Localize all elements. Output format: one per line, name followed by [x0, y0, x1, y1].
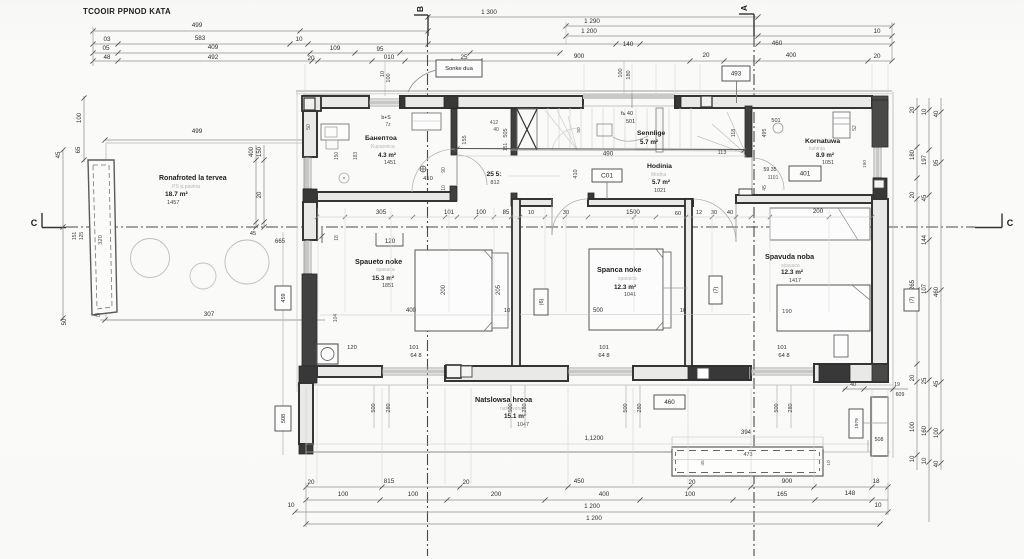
- svg-text:20: 20: [910, 106, 916, 113]
- svg-text:60: 60: [675, 211, 681, 217]
- boxed label 1979: [849, 409, 863, 438]
- top guide x566: [565, 22, 567, 44]
- label 25 5: [487, 171, 560, 186]
- left wall lower extension: [299, 383, 313, 444]
- downpipe rect 508: [871, 397, 888, 456]
- room label lower terrace: [475, 395, 533, 428]
- svg-text:609: 609: [896, 392, 905, 398]
- stair winder lines: [697, 112, 746, 154]
- svg-text:508: 508: [875, 437, 884, 443]
- svg-text:165: 165: [777, 491, 788, 498]
- bottom wall window 1: [382, 367, 445, 376]
- room label sennlige: [637, 130, 666, 146]
- rotated labels near centerline left: [72, 232, 85, 241]
- svg-text:109: 109: [330, 45, 341, 52]
- svg-text:65: 65: [76, 146, 82, 153]
- top wall block a: [400, 96, 405, 108]
- top wall segment 2: [400, 96, 583, 108]
- wc2 fixture b: [613, 136, 648, 141]
- svg-text:499: 499: [192, 128, 203, 135]
- C01 leader: [606, 182, 608, 199]
- svg-text:20: 20: [462, 479, 470, 486]
- svg-text:118: 118: [731, 129, 737, 137]
- dim row y212: [376, 208, 824, 217]
- guide line x385 with rotated 10/100: [380, 61, 392, 96]
- svg-text:40: 40: [727, 210, 733, 216]
- svg-text:1 200: 1 200: [584, 503, 600, 510]
- svg-text:409: 409: [208, 44, 219, 51]
- tree circle 1: [131, 239, 170, 278]
- svg-text:12: 12: [696, 210, 702, 216]
- svg-text:1021: 1021: [654, 188, 666, 194]
- svg-text:665: 665: [275, 239, 286, 245]
- svg-text:280: 280: [637, 403, 643, 412]
- bed 2: [589, 249, 687, 330]
- svg-text:450: 450: [574, 478, 585, 485]
- svg-text:460: 460: [772, 40, 783, 47]
- svg-text:20: 20: [702, 52, 710, 59]
- svg-text:05: 05: [102, 45, 110, 52]
- svg-text:(6): (6): [539, 298, 545, 305]
- svg-text:200: 200: [491, 491, 502, 498]
- right dim x929: [922, 98, 932, 522]
- svg-text:150: 150: [334, 152, 340, 161]
- svg-text:45: 45: [56, 151, 62, 158]
- svg-text:40: 40: [850, 382, 856, 388]
- svg-text:85: 85: [503, 210, 510, 216]
- door symbol 410: [420, 166, 433, 182]
- svg-text:183: 183: [353, 152, 359, 161]
- svg-text:499: 499: [192, 22, 203, 29]
- svg-text:1417: 1417: [789, 278, 801, 284]
- dim row y311: [320, 308, 751, 322]
- svg-text:101: 101: [777, 345, 787, 351]
- svg-text:151: 151: [503, 143, 509, 152]
- svg-text:265: 265: [910, 279, 916, 290]
- svg-text:1 200: 1 200: [581, 28, 597, 35]
- top dim line 1290: [563, 18, 894, 29]
- svg-text:394: 394: [741, 430, 752, 436]
- svg-text:320: 320: [98, 235, 104, 245]
- svg-text:1051: 1051: [822, 160, 834, 166]
- svg-text:Банептоа: Банептоа: [365, 135, 397, 142]
- svg-text:fь 40: fь 40: [621, 111, 633, 117]
- svg-text:95: 95: [934, 159, 940, 166]
- rotated 500/280 pair 4: [774, 385, 794, 428]
- svg-text:Modna: Modna: [651, 172, 667, 178]
- small dims right of wall: [842, 382, 908, 452]
- svg-text:1 290: 1 290: [584, 18, 600, 25]
- svg-text:1500: 1500: [626, 209, 640, 216]
- tree circle 3: [225, 240, 269, 284]
- svg-text:B: B: [415, 6, 425, 12]
- room label kornatuwa: [805, 138, 840, 166]
- dim row y347 bedroom1: [347, 345, 421, 359]
- terrace planter inner dashed: [93, 165, 112, 309]
- svg-text:107: 107: [922, 283, 928, 294]
- svg-text:1457: 1457: [167, 200, 179, 206]
- svg-text:148: 148: [845, 490, 856, 497]
- svg-text:45: 45: [94, 313, 100, 319]
- svg-text:64 8: 64 8: [410, 353, 421, 359]
- top wall segment 1: [303, 96, 369, 108]
- svg-text:100: 100: [408, 491, 419, 498]
- dim row y347 bedroom2: [598, 345, 609, 359]
- entrance threshold band: [583, 90, 675, 108]
- svg-text:10: 10: [680, 308, 686, 314]
- bottom wall window 3: [751, 367, 814, 376]
- pergola guide stubs: [672, 437, 823, 449]
- faint guides below building: [306, 388, 888, 484]
- svg-text:1 300: 1 300: [481, 9, 497, 16]
- svg-text:190: 190: [782, 309, 792, 315]
- bathroom inner door arc: [412, 149, 455, 192]
- svg-text:197: 197: [922, 154, 928, 165]
- svg-text:412: 412: [490, 120, 499, 126]
- svg-text:TCOOIR PPNOD KATA: TCOOIR PPNOD KATA: [83, 7, 171, 16]
- room label bathroom: [365, 135, 397, 166]
- svg-text:490: 490: [603, 151, 614, 158]
- tree circle 2: [190, 263, 216, 289]
- left wall bottom end block: [299, 444, 313, 454]
- hall wall stub C: [511, 193, 552, 206]
- svg-text:50: 50: [576, 127, 582, 133]
- label 394: [672, 430, 823, 437]
- svg-text:101: 101: [409, 345, 419, 351]
- svg-text:50: 50: [306, 124, 312, 130]
- svg-text:100: 100: [338, 491, 349, 498]
- bathroom bottom wall stub: [450, 186, 457, 201]
- svg-text:500: 500: [774, 403, 780, 412]
- svg-text:101: 101: [599, 345, 609, 351]
- svg-text:10: 10: [910, 455, 916, 462]
- left wall mid hollow: [303, 202, 317, 240]
- svg-text:C01: C01: [601, 173, 613, 180]
- eave line right: [892, 92, 894, 458]
- svg-text:50: 50: [62, 318, 68, 325]
- room label bedroom1: [355, 257, 402, 289]
- bedroom3 door arc: [693, 199, 736, 242]
- svg-text:501: 501: [626, 119, 635, 125]
- top dim line 1200: [563, 28, 894, 39]
- left wall window 2: [303, 240, 312, 274]
- svg-text:410: 410: [573, 169, 579, 178]
- bedroom2 door leaf: [551, 199, 553, 235]
- bottom wall segment 3: [633, 366, 751, 380]
- left wall window 1: [303, 157, 312, 189]
- section line B vertical dash-dot x427: [427, 36, 429, 556]
- bath door leaf: [456, 155, 458, 185]
- terrace bottom dim 307: [100, 311, 325, 323]
- svg-text:100: 100: [476, 210, 487, 216]
- left dim x84: [76, 95, 87, 162]
- boxed label 493 top: [722, 66, 750, 81]
- right boxed label 7: [904, 289, 919, 311]
- room label bedroom2: [597, 265, 641, 298]
- top wall segment 3: [675, 96, 872, 108]
- svg-text:1101: 1101: [768, 175, 779, 181]
- svg-text:460: 460: [934, 286, 940, 297]
- svg-text:45: 45: [934, 380, 940, 387]
- pergola inner dashes: [672, 451, 823, 473]
- svg-text:Spanса noke: Spanса noke: [597, 265, 641, 274]
- svg-text:410: 410: [423, 176, 433, 182]
- svg-text:400: 400: [406, 308, 417, 314]
- kitchen sink circle: [773, 123, 783, 133]
- svg-text:150: 150: [257, 146, 263, 157]
- eave line left: [296, 92, 298, 392]
- bottom wall block a: [446, 365, 461, 378]
- terrace top dim 499: [102, 128, 307, 143]
- faint guides inside rooms: [318, 208, 829, 312]
- stair landing line: [511, 150, 746, 151]
- dim bracket 120: [376, 233, 403, 246]
- svg-text:40: 40: [934, 460, 940, 467]
- stairs x-brace: [517, 109, 537, 150]
- pergola outer rect: [672, 447, 823, 476]
- bottom wall block c: [819, 364, 850, 382]
- svg-text:815: 815: [384, 478, 395, 485]
- boxed label C01: [592, 169, 622, 182]
- svg-text:10: 10: [295, 36, 303, 43]
- bedroom2 door arc: [552, 199, 588, 235]
- svg-text:100: 100: [685, 491, 696, 498]
- dim row y347 bedroom3: [777, 345, 789, 359]
- kitchen door leaf: [751, 158, 753, 190]
- top wall block b: [444, 96, 458, 108]
- bedroom3 door leaf: [735, 199, 737, 242]
- svg-text:500: 500: [623, 403, 629, 412]
- svg-text:40: 40: [493, 127, 499, 133]
- small text 501: [621, 111, 635, 125]
- svg-text:10: 10: [922, 108, 928, 115]
- svg-text:45: 45: [922, 194, 928, 201]
- rotated 500/280 pair 2: [508, 385, 528, 428]
- svg-text:1047: 1047: [517, 422, 529, 428]
- svg-text:90: 90: [441, 167, 447, 173]
- bedroom divider wall F: [685, 199, 692, 366]
- bedroom2 top wall E: [588, 193, 693, 206]
- eave line top 2: [296, 93, 892, 95]
- svg-text:(7): (7): [910, 296, 916, 303]
- svg-text:C: C: [1007, 218, 1014, 228]
- lower line y452 right: [823, 451, 890, 453]
- light wall pair kitchen: [656, 108, 663, 152]
- top dim line 1300: [425, 9, 760, 20]
- svg-text:18: 18: [872, 478, 880, 485]
- svg-text:7z: 7z: [385, 122, 391, 128]
- eave line top: [296, 90, 892, 92]
- faint guides above building: [305, 64, 888, 94]
- svg-text:100: 100: [77, 112, 83, 123]
- terrace planter slanted: [88, 160, 117, 315]
- bottom chain right vertical: [887, 483, 889, 515]
- svg-text:A: A: [739, 5, 749, 11]
- svg-text:140: 140: [623, 41, 634, 48]
- pergola rotated small labels: [700, 460, 832, 466]
- svg-text:508: 508: [281, 414, 287, 423]
- top dim chain b: [90, 44, 562, 56]
- svg-text:459: 459: [281, 293, 287, 302]
- washing machine: [317, 344, 338, 364]
- bed 3: [777, 285, 870, 331]
- svg-text:180: 180: [626, 70, 632, 79]
- boxed label 460: [654, 395, 685, 409]
- rotated dim x505: [503, 128, 509, 151]
- svg-text:45: 45: [762, 185, 768, 191]
- svg-text:40: 40: [934, 110, 940, 117]
- kitchen fridge: [833, 112, 850, 138]
- section mark B top: [414, 6, 428, 36]
- top dim line 499: [90, 22, 430, 34]
- boxed label between beds: [534, 289, 548, 315]
- 493 leader: [736, 81, 738, 103]
- right dim x917: [910, 98, 920, 470]
- right wall lower hollow: [872, 199, 888, 364]
- svg-text:20: 20: [307, 479, 315, 486]
- svg-text:500: 500: [593, 308, 604, 314]
- svg-text:10: 10: [873, 28, 881, 35]
- top chain end vertical right: [891, 22, 893, 61]
- svg-text:500: 500: [508, 403, 514, 412]
- svg-text:1979: 1979: [854, 418, 860, 429]
- svg-text:03: 03: [103, 36, 111, 43]
- svg-text:200: 200: [813, 208, 824, 215]
- top wall corner block NE: [872, 96, 888, 110]
- svg-text:812: 812: [490, 180, 499, 186]
- svg-text:48: 48: [103, 54, 111, 61]
- svg-text:1451: 1451: [384, 160, 396, 166]
- left wall block: [303, 189, 317, 202]
- svg-text:305: 305: [376, 209, 387, 216]
- bottom wall small square: [697, 368, 709, 379]
- lower dim 1200 line: [306, 443, 870, 445]
- right wall upper block: [872, 100, 888, 147]
- kitchen door arc: [752, 158, 784, 190]
- bed 1: [415, 250, 508, 331]
- svg-text:100: 100: [618, 68, 624, 77]
- svg-text:Spavuda noba: Spavuda noba: [765, 252, 815, 261]
- svg-text:1851: 1851: [382, 283, 394, 289]
- svg-text:10: 10: [528, 210, 534, 216]
- svg-text:10: 10: [826, 460, 832, 466]
- svg-text:64 8: 64 8: [598, 353, 609, 359]
- terrace outline: [106, 143, 305, 320]
- section mark A top: [739, 5, 754, 36]
- svg-text:492: 492: [208, 54, 219, 61]
- svg-text:120: 120: [347, 345, 357, 351]
- small text 412 40: [490, 120, 499, 133]
- left wall corner block SW: [299, 366, 317, 383]
- svg-text:200: 200: [441, 284, 447, 295]
- svg-text:8.9 m²: 8.9 m²: [816, 152, 834, 159]
- bath door arc: [457, 155, 487, 185]
- bottom wall segment 1: [317, 366, 382, 377]
- bottom chain 2: [303, 490, 888, 503]
- boxed label 459 left upper: [275, 286, 291, 310]
- svg-text:493: 493: [731, 71, 742, 78]
- bottom wall corner block SE: [872, 364, 888, 382]
- svg-text:280: 280: [522, 403, 528, 412]
- stairs left wall: [511, 109, 517, 155]
- top wall block entrance right: [675, 96, 681, 108]
- tick marker small y231: [315, 228, 340, 243]
- svg-text:401: 401: [800, 171, 811, 178]
- top chain end vertical left: [92, 27, 94, 66]
- svg-text:(7): (7): [714, 286, 720, 293]
- svg-text:583: 583: [195, 35, 206, 42]
- bottom wall segment 2: [445, 366, 568, 381]
- nightstand bedroom3: [834, 335, 848, 357]
- svg-text:120: 120: [385, 238, 396, 245]
- top dim chain c: [90, 52, 894, 64]
- right dim x941: [934, 98, 944, 470]
- bathroom sink: [412, 113, 441, 130]
- svg-text:1 200: 1 200: [586, 515, 602, 522]
- svg-text:280: 280: [788, 403, 794, 412]
- boxed label 508 left lower: [275, 406, 291, 431]
- svg-text:15.1 m²: 15.1 m²: [504, 413, 526, 420]
- svg-text:100: 100: [910, 421, 916, 432]
- svg-text:Ronafroted la tervea: Ronafroted la tervea: [159, 175, 227, 182]
- svg-text:505: 505: [503, 128, 509, 137]
- centerline ticks terrace: [250, 224, 267, 237]
- svg-text:190: 190: [862, 160, 868, 168]
- svg-text:45: 45: [250, 231, 256, 237]
- svg-text:10: 10: [922, 457, 928, 464]
- svg-text:900: 900: [782, 478, 793, 485]
- bathroom rotated labels: [306, 124, 447, 191]
- left guide x283: [282, 232, 284, 455]
- stair lower fan: [545, 110, 582, 150]
- svg-text:180: 180: [910, 149, 916, 160]
- wardrobe bedroom3: [770, 208, 870, 240]
- left wall dark band: [302, 274, 317, 366]
- stair treads: [548, 108, 691, 148]
- bottom chain 1: [303, 478, 890, 490]
- svg-text:20: 20: [688, 479, 696, 486]
- wc2 fixture: [597, 124, 612, 136]
- bathroom shape small: [326, 140, 338, 149]
- svg-text:500: 500: [371, 403, 377, 412]
- section mark C right: [975, 214, 1014, 229]
- bottom chain left vertical: [305, 483, 307, 527]
- svg-text:PS p.pavina: PS p.pavina: [172, 184, 200, 190]
- svg-text:307: 307: [204, 311, 215, 318]
- svg-text:19: 19: [894, 382, 900, 388]
- bottom wall segment 4: [814, 364, 888, 382]
- svg-text:280: 280: [386, 403, 392, 412]
- left wall upper hollow: [303, 111, 317, 157]
- svg-text:100: 100: [386, 73, 392, 82]
- interior wall B vertical: [745, 106, 752, 157]
- top dim chain a: [90, 35, 894, 48]
- note box sonke dua: [408, 60, 482, 92]
- right wall window: [873, 147, 882, 178]
- svg-text:125: 125: [79, 232, 85, 241]
- svg-text:1,1200: 1,1200: [585, 435, 604, 442]
- section mark C left: [31, 213, 66, 228]
- svg-text:18.7 m²: 18.7 m²: [165, 191, 189, 198]
- svg-text:5.7 m²: 5.7 m²: [652, 179, 670, 186]
- hall dim 490: [454, 146, 746, 157]
- section line A vertical dash-dot x755: [753, 36, 755, 556]
- top wall block c: [701, 96, 712, 107]
- svg-text:Kornatuwa: Kornatuwa: [805, 138, 840, 145]
- room label hodinia: [647, 163, 672, 194]
- svg-text:45: 45: [700, 460, 706, 466]
- bottom chain 4: [303, 515, 882, 527]
